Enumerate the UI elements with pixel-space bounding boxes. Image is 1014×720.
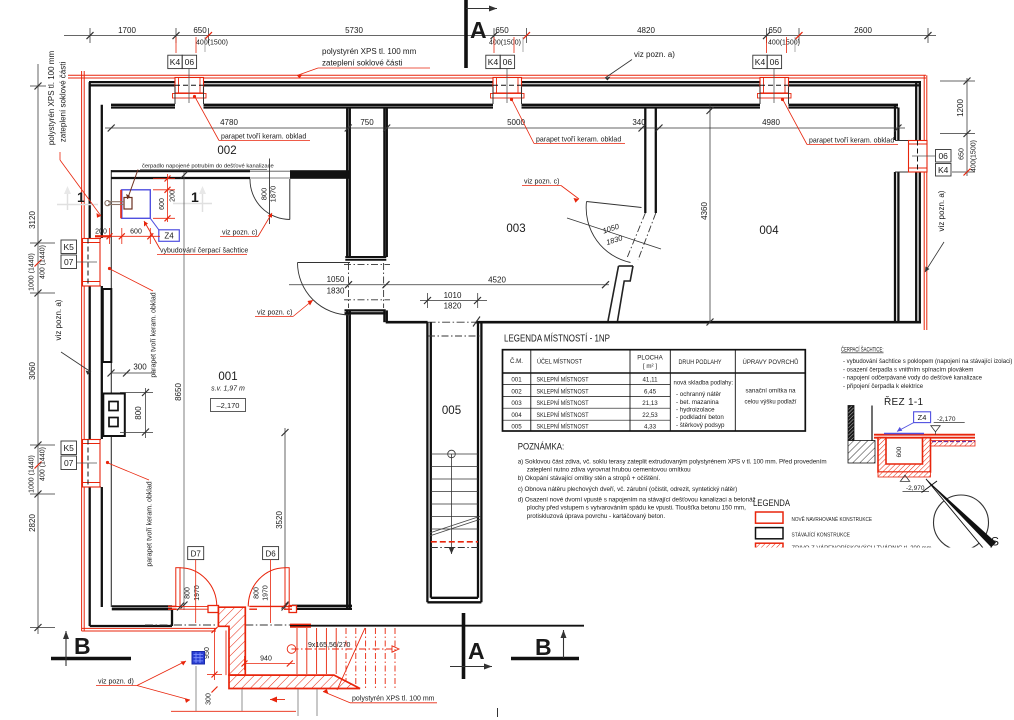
insulation line left — [82, 71, 85, 631]
svg-text:NOVĚ NAVRHOVANÉ KONSTRUKCE: NOVĚ NAVRHOVANÉ KONSTRUKCE — [792, 515, 873, 523]
svg-text:- ochranný nátěr: - ochranný nátěr — [676, 391, 721, 398]
wall right outer leaf — [916, 82, 920, 323]
dim 4520 — [289, 276, 609, 289]
svg-text:2820: 2820 — [28, 514, 37, 532]
svg-text:ČERPACÍ ŠACHTICE:: ČERPACÍ ŠACHTICE: — [841, 345, 884, 354]
door 001-003 size labels 1050 1830 — [327, 275, 345, 296]
dim texts top red 650 — [193, 26, 782, 35]
red bottom dim line — [171, 710, 296, 712]
Z4 leader — [150, 218, 159, 230]
svg-text:06: 06 — [185, 57, 195, 67]
dim ticks right — [964, 78, 971, 138]
svg-text:b) Okopání stávající omítky st: b) Okopání stávající omítky stěn a strop… — [518, 474, 661, 482]
window bay jambs top — [175, 87, 789, 105]
cerpadlo underline — [140, 168, 267, 170]
svg-text:650: 650 — [768, 26, 782, 35]
legend new construction — [756, 512, 784, 523]
wall top inner leaf — [111, 105, 898, 108]
red ticks left — [35, 260, 42, 469]
dim 300 pilaster — [108, 363, 156, 377]
shaft door cap — [345, 257, 386, 260]
retaining wall left hatched (stepped) — [218, 607, 245, 675]
door 002 swing arc — [250, 179, 290, 220]
drain circle — [287, 645, 296, 654]
svg-text:300: 300 — [133, 363, 147, 372]
svg-text:plochy před vstupem s vytvarov: plochy před vstupem s vytvarováním spádu… — [527, 504, 746, 511]
svg-text:003: 003 — [511, 400, 522, 407]
door D7 — [176, 568, 217, 607]
section B middle — [511, 630, 579, 660]
svg-text:1970: 1970 — [263, 585, 270, 601]
section A top — [466, 0, 497, 68]
svg-text:005: 005 — [442, 405, 461, 417]
svg-text:S: S — [991, 535, 999, 549]
pump leader line — [128, 170, 139, 200]
dim 3520 — [275, 428, 289, 610]
svg-text:LEGENDA MÍSTNOSTÍ - 1NP: LEGENDA MÍSTNOSTÍ - 1NP — [504, 332, 610, 345]
svg-text:[ m² ]: [ m² ] — [643, 363, 657, 370]
svg-text:d) Osazení nové dvorní vpustě: d) Osazení nové dvorní vpustě s napojení… — [518, 497, 756, 504]
svg-text:1830: 1830 — [605, 233, 624, 247]
wall bottom under room005 strip — [292, 606, 352, 609]
svg-text:001: 001 — [218, 371, 237, 383]
svg-text:004: 004 — [511, 412, 522, 419]
window K4/06 no.1 — [173, 69, 207, 103]
svg-text:5730: 5730 — [345, 26, 363, 35]
vybudovani arrow — [144, 221, 160, 249]
door 003-004 size labels 1050 1830 — [601, 222, 624, 247]
svg-text:nová skladba podlahy:: nová skladba podlahy: — [674, 380, 734, 387]
svg-text:viz pozn. a): viz pozn. a) — [634, 50, 675, 59]
svg-text:B: B — [535, 634, 552, 660]
label box K5 07 no.1 — [61, 240, 77, 269]
door 001-003 leaf — [298, 262, 351, 264]
pump square — [124, 198, 132, 210]
svg-text:K4: K4 — [170, 57, 181, 67]
svg-text:PLOCHA: PLOCHA — [637, 355, 663, 362]
svg-text:002: 002 — [217, 145, 236, 157]
svg-text:06: 06 — [503, 57, 513, 67]
door 002 leaf — [289, 179, 291, 220]
sachtice blue box — [122, 190, 151, 219]
label polystyren top — [322, 47, 417, 68]
red ramp arrow bottom — [270, 699, 285, 701]
svg-text:600: 600 — [159, 198, 166, 210]
svg-text:4820: 4820 — [637, 26, 655, 35]
Z4 label box — [159, 230, 180, 242]
svg-text:K4: K4 — [488, 57, 499, 67]
shaft bottom band — [345, 310, 386, 313]
svg-text:parapet tvoří keram. obklad: parapet tvoří keram. obklad — [536, 137, 621, 144]
svg-text:06: 06 — [938, 151, 948, 161]
svg-text:-2,170: -2,170 — [937, 416, 956, 423]
svg-text:DRUH PODLAHY: DRUH PODLAHY — [679, 359, 722, 366]
svg-text:06: 06 — [770, 57, 780, 67]
window K5/07 no.1 — [77, 239, 101, 287]
svg-text:5000: 5000 — [507, 118, 525, 127]
dim texts interior — [220, 118, 780, 127]
dim line top — [64, 28, 936, 43]
wall left inner face thin — [110, 170, 112, 607]
dim texts left black — [28, 211, 37, 532]
svg-text:800: 800 — [260, 188, 269, 201]
wall left outer face — [89, 82, 91, 626]
svg-text:ÚPRAVY POVRCHŮ: ÚPRAVY POVRCHŮ — [743, 359, 799, 366]
svg-text:c) Obnova nátěru plechových dv: c) Obnova nátěru plechových dveří, vč. z… — [518, 486, 738, 493]
svg-text:1700: 1700 — [118, 26, 136, 35]
landing step edge red — [225, 631, 227, 676]
sachtice red dim 600/200 vertical — [153, 174, 175, 222]
detail existing wall strip — [848, 406, 854, 441]
section1 faint cross left — [57, 188, 98, 210]
small tick mark page bottom — [497, 708, 499, 717]
terrain line courtyard — [290, 625, 584, 627]
chimney flue 1 — [109, 402, 118, 411]
section1 faint cross right — [173, 188, 212, 212]
door 001-003 opening dashdot — [344, 263, 390, 308]
door D7 threshold red — [177, 606, 217, 609]
svg-text:zateplení soklové části: zateplení soklové části — [322, 59, 403, 68]
dim 300 red vertical — [212, 687, 218, 693]
wall bottom 003/004 opening dashdot at stair — [428, 321, 476, 323]
svg-text:4,33: 4,33 — [644, 424, 657, 431]
svg-text:400 (1440): 400 (1440) — [40, 447, 47, 481]
svg-text:950: 950 — [204, 647, 211, 659]
svg-text:940: 940 — [260, 656, 272, 663]
svg-text:1050: 1050 — [327, 275, 345, 284]
window right 06/K4 — [909, 141, 936, 173]
red wall pass line — [95, 235, 111, 237]
svg-text:viz pozn. d): viz pozn. d) — [98, 679, 134, 686]
insulation line right — [924, 75, 927, 330]
svg-text:2600: 2600 — [854, 26, 872, 35]
wall top outer leaf — [89, 82, 921, 85]
svg-text:parapet tvoří keram. obklad: parapet tvoří keram. obklad — [809, 138, 894, 145]
blue drain square — [192, 652, 205, 665]
svg-text:002: 002 — [511, 388, 522, 395]
svg-text:8650: 8650 — [174, 383, 183, 401]
wall 003-004 lower jog (slanted) — [608, 266, 633, 321]
svg-text:400(1500): 400(1500) — [196, 40, 228, 47]
svg-text:4780: 4780 — [220, 118, 238, 127]
wall room002 bottom west part — [111, 171, 250, 178]
insulation line top — [68, 75, 926, 78]
detail wall line — [871, 406, 873, 442]
svg-text:s.v. 1,97 m: s.v. 1,97 m — [211, 386, 245, 393]
svg-text:21,13: 21,13 — [642, 400, 658, 407]
window K5/07 no.2 — [77, 440, 101, 488]
wall right inner leaf (room 004 east wall) — [895, 105, 898, 322]
door 003-004 axis line — [567, 218, 661, 249]
svg-text:800: 800 — [185, 587, 192, 599]
svg-text:4520: 4520 — [488, 276, 506, 285]
svg-text:Z4: Z4 — [164, 232, 174, 241]
svg-text:vybudování čerpací šachtice: vybudování čerpací šachtice — [160, 248, 248, 255]
svg-text:07: 07 — [64, 458, 74, 468]
svg-text:1830: 1830 — [327, 287, 345, 296]
svg-text:- bet. mazanina: - bet. mazanina — [676, 399, 719, 406]
svg-text:750: 750 — [360, 118, 374, 127]
svg-text:1000 (1440): 1000 (1440) — [29, 455, 36, 493]
stair walkline arrow — [449, 547, 455, 554]
svg-text:1: 1 — [191, 189, 199, 205]
svg-text:STÁVAJÍCÍ KONSTRUKCE: STÁVAJÍCÍ KONSTRUKCE — [792, 531, 851, 538]
left pilaster — [103, 289, 112, 362]
dim 1010 1820 — [420, 291, 487, 311]
svg-text:1000 (1440): 1000 (1440) — [29, 253, 36, 291]
shaft west face — [347, 109, 350, 610]
label box D6 — [263, 547, 279, 560]
svg-text:800: 800 — [254, 587, 261, 599]
detail right slab hatched — [926, 441, 975, 447]
svg-text:SKLEPNÍ MÍSTNOST: SKLEPNÍ MÍSTNOST — [537, 388, 589, 395]
exterior walkline dashdot — [292, 648, 393, 650]
svg-text:1: 1 — [77, 189, 85, 205]
svg-text:viz pozn. a): viz pozn. a) — [54, 299, 63, 340]
jamb block right of D6 — [289, 606, 297, 613]
svg-text:- hydroizolace: - hydroizolace — [676, 407, 715, 414]
svg-text:200: 200 — [170, 190, 177, 202]
svg-text:K4: K4 — [938, 165, 949, 175]
svg-text:A: A — [468, 638, 485, 664]
window bay jambs left — [85, 141, 916, 488]
svg-text:9x165,56/270: 9x165,56/270 — [308, 642, 351, 649]
svg-text:Z4: Z4 — [918, 413, 927, 422]
section A bottom — [450, 613, 492, 679]
jamb ticks at D7/D6 openings — [177, 603, 289, 611]
svg-text:SKLEPNÍ MÍSTNOST: SKLEPNÍ MÍSTNOST — [537, 377, 589, 384]
dim line right — [940, 78, 975, 176]
svg-text:a) Soklovou část zdiva, vč. so: a) Soklovou část zdiva, vč. soklu terasy… — [518, 459, 827, 466]
svg-text:ÚČEL MÍSTNOST: ÚČEL MÍSTNOST — [537, 359, 582, 366]
table legenda mistnosti — [503, 332, 806, 432]
label box K4 06 no.1 — [168, 55, 197, 68]
label box K4 06 no.3 — [753, 55, 782, 68]
svg-text:sanační omítka na: sanační omítka na — [746, 388, 797, 395]
svg-text:340: 340 — [632, 118, 646, 127]
label polystyren left (rotated) — [47, 51, 68, 146]
dim line interior top — [105, 127, 905, 129]
window K4/06 no.3 — [758, 69, 792, 103]
svg-text:003: 003 — [506, 223, 525, 235]
svg-text:polystyrén XPS tl. 100 mm: polystyrén XPS tl. 100 mm — [352, 696, 435, 703]
red thresholds at D6/D7 — [249, 606, 311, 627]
svg-text:LEGENDA: LEGENDA — [753, 498, 790, 508]
dim texts left red — [29, 245, 47, 493]
detail level -2,970 — [900, 475, 909, 481]
dim 950 red vertical — [207, 628, 222, 680]
svg-text:1820: 1820 — [444, 302, 462, 311]
svg-text:polystyrén XPS tl. 100 mm: polystyrén XPS tl. 100 mm — [47, 51, 56, 146]
dim texts top — [118, 26, 872, 35]
door 003-004 opening dashdot — [627, 213, 656, 260]
svg-text:D7: D7 — [191, 549, 202, 558]
insulation line bottom-left — [82, 628, 216, 631]
svg-text:viz pozn. c): viz pozn. c) — [524, 179, 559, 186]
svg-text:001: 001 — [511, 377, 522, 384]
svg-text:SKLEPNÍ MÍSTNOST: SKLEPNÍ MÍSTNOST — [537, 412, 589, 419]
door 003-004 swing arc — [586, 202, 630, 263]
chimney flue 2 — [109, 418, 118, 427]
svg-text:650: 650 — [959, 148, 966, 160]
svg-text:400(1500): 400(1500) — [971, 140, 978, 172]
svg-text:3520: 3520 — [275, 511, 284, 529]
dim texts top red 400(1500) — [196, 40, 800, 47]
wall left middle leaf — [101, 105, 103, 607]
svg-text:B: B — [74, 633, 91, 659]
stairwell walls — [427, 322, 481, 602]
detail ground block — [848, 441, 875, 464]
detail Z4 box — [914, 412, 931, 423]
svg-text:parapet tvoří keram. obklad: parapet tvoří keram. obklad — [147, 481, 154, 566]
svg-text:600: 600 — [896, 446, 903, 457]
sachtice red edge — [120, 190, 122, 219]
door 003-004 leaf — [587, 202, 642, 208]
svg-text:400 (1440): 400 (1440) — [40, 245, 47, 279]
legend third row clipped — [756, 543, 932, 554]
svg-text:Č.M.: Č.M. — [510, 358, 523, 365]
svg-text:parapet tvoří keram. obklad: parapet tvoří keram. obklad — [221, 134, 306, 141]
svg-text:004: 004 — [759, 225, 779, 237]
svg-text:41,11: 41,11 — [642, 377, 658, 384]
dim ticks top — [87, 32, 932, 39]
wall junction ticks bottom wall — [473, 317, 480, 327]
stair treads exterior red — [297, 628, 336, 674]
svg-text:1970: 1970 — [194, 585, 201, 601]
door D7 jambs red — [168, 606, 177, 609]
svg-text:K5: K5 — [63, 443, 74, 453]
wall room002 bottom east part (solid) — [290, 170, 349, 179]
svg-text:zateplení nutno zdiva vyrovnat: zateplení nutno zdiva vyrovnat hrubou ce… — [527, 467, 691, 474]
legend existing construction — [756, 528, 784, 539]
svg-text:4360: 4360 — [700, 202, 709, 220]
svg-text:ZDIVO Z VÁPENOPÍSKOVÝCH TVÁRNI: ZDIVO Z VÁPENOPÍSKOVÝCH TVÁRNIC tl. 200 … — [792, 545, 932, 552]
detail floor red lines — [874, 435, 975, 438]
svg-text:07: 07 — [64, 257, 74, 267]
svg-text:3060: 3060 — [28, 362, 37, 380]
svg-text:D6: D6 — [265, 549, 276, 558]
svg-text:SKLEPNÍ MÍSTNOST: SKLEPNÍ MÍSTNOST — [537, 400, 589, 407]
svg-text:1200: 1200 — [956, 99, 965, 117]
svg-text:200: 200 — [95, 229, 107, 236]
window K4/06 no.2 — [491, 69, 525, 103]
dim 4360 — [700, 104, 714, 326]
svg-text:- napojení odčerpávané vody do: - napojení odčerpávané vody do dešťové k… — [843, 376, 983, 382]
svg-text:polystyrén XPS tl. 100 mm: polystyrén XPS tl. 100 mm — [322, 47, 417, 56]
room 001 level box — [211, 399, 246, 412]
svg-text:viz pozn. c): viz pozn. c) — [222, 230, 257, 237]
svg-text:600: 600 — [130, 229, 142, 236]
svg-text:300: 300 — [206, 693, 213, 705]
svg-text:3120: 3120 — [28, 211, 37, 229]
label box D7 — [188, 547, 204, 560]
stair treads — [431, 454, 478, 529]
section B left — [51, 631, 131, 666]
gray terrain verticals below — [196, 666, 317, 716]
door D7 center line — [195, 560, 197, 623]
retaining wall bottom hatched — [229, 675, 360, 688]
svg-text:- osazení čerpadla s vnitřním: - osazení čerpadla s vnitřním spínacím p… — [843, 367, 973, 373]
svg-text:protiskluzová úprava povrchu -: protiskluzová úprava povrchu - kartáčova… — [527, 513, 666, 520]
stair red dashed new line — [431, 541, 478, 543]
door 002 size line — [269, 159, 271, 225]
label box K5 07 no.2 — [61, 441, 77, 470]
svg-text:- podkladní beton: - podkladní beton — [676, 414, 724, 421]
wall room001 bottom outer — [90, 625, 172, 627]
dim ticks left — [35, 83, 42, 632]
svg-text:-2,970: -2,970 — [906, 485, 925, 492]
svg-text:1870: 1870 — [269, 186, 278, 203]
svg-text:6,45: 6,45 — [644, 388, 657, 395]
wall 003-004 upper — [645, 108, 656, 214]
door 002 threshold thin lines — [250, 171, 290, 178]
stair walkline start circle — [448, 450, 456, 458]
svg-text:650: 650 — [495, 26, 509, 35]
svg-text:čerpadlo napojené potrubím do: čerpadlo napojené potrubím do dešťové ka… — [142, 163, 274, 169]
svg-text:1010: 1010 — [444, 291, 462, 300]
stairwell top dashdot — [428, 335, 481, 337]
svg-text:- štěrkový podsyp: - štěrkový podsyp — [676, 422, 725, 429]
dim 800 chimney — [120, 388, 153, 438]
label box K4 06 no.2 — [486, 55, 515, 68]
stair break line double — [430, 516, 482, 536]
dim ticks interior — [108, 125, 902, 132]
svg-text:viz pozn. a): viz pozn. a) — [937, 190, 946, 231]
svg-text:- připojení čerpadla k elektri: - připojení čerpadla k elektrice — [843, 384, 924, 390]
svg-text:zateplení soklové části: zateplení soklové části — [59, 62, 68, 143]
label box 06 K4 right — [936, 150, 952, 177]
stair break line red diagonal — [337, 628, 365, 690]
svg-text:22,53: 22,53 — [642, 412, 658, 419]
stair walkline — [451, 454, 453, 554]
wall room001 bottom inner — [112, 606, 172, 626]
red subdim brackets top — [176, 37, 787, 53]
svg-text:celou výšku podlaží: celou výšku podlaží — [745, 398, 797, 405]
dim 940 red — [245, 656, 296, 670]
svg-text:- vybudování šachtice s poklop: - vybudování šachtice s poklopem (napoje… — [843, 359, 1012, 365]
chimney body — [103, 394, 125, 437]
svg-text:–2,170: –2,170 — [217, 401, 240, 410]
detail blue lid — [884, 433, 924, 435]
stair dashdot below — [431, 547, 478, 549]
jamb block between D7 and retaining wall — [208, 606, 219, 613]
svg-text:viz pozn. c): viz pozn. c) — [257, 310, 292, 317]
svg-text:800: 800 — [134, 406, 143, 420]
door D6 center line — [270, 560, 272, 623]
svg-text:ŘEZ 1-1: ŘEZ 1-1 — [884, 395, 923, 408]
door 002 size labels 800 1870 — [260, 186, 278, 203]
dim line left — [30, 64, 55, 634]
svg-text:A: A — [470, 17, 487, 43]
wall bottom of rooms 003 004 — [386, 321, 921, 324]
sachtice red dim 200/600 horizontal — [95, 228, 160, 244]
detail pit bottom band — [878, 472, 931, 477]
dashdot at entry doors — [145, 624, 290, 626]
svg-text:K5: K5 — [63, 242, 74, 252]
door 001-003 swing arc — [298, 263, 351, 316]
svg-text:SKLEPNÍ MÍSTNOST: SKLEPNÍ MÍSTNOST — [537, 424, 589, 431]
door D6 — [248, 568, 289, 607]
svg-text:650: 650 — [193, 26, 207, 35]
svg-text:4980: 4980 — [762, 118, 780, 127]
svg-text:005: 005 — [511, 424, 522, 431]
pump pipe — [105, 201, 124, 206]
detail pit — [878, 438, 931, 472]
shaft east face (room003 west wall) — [384, 109, 386, 323]
svg-text:POZNÁMKA:: POZNÁMKA: — [518, 442, 565, 453]
svg-text:K4: K4 — [755, 57, 766, 67]
vybudovani underline — [157, 254, 247, 256]
